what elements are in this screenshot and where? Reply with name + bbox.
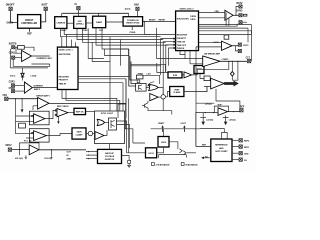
svg-text:CLK: CLK bbox=[99, 30, 104, 32]
mesh wire B bbox=[64, 28, 150, 34]
svg-text:GND: GND bbox=[67, 159, 72, 161]
wire ldo5 right bbox=[169, 142, 178, 149]
junction src2 bbox=[19, 149, 20, 150]
arrow chevron 2 bbox=[183, 151, 186, 155]
ramp block U4 bbox=[93, 16, 106, 28]
wire POR reset out bbox=[143, 21, 176, 23]
terminal VL pad bbox=[77, 6, 80, 9]
wire bus stub vout bbox=[183, 129, 185, 132]
wire vertical bundle a bbox=[88, 28, 104, 58]
terminal FB1 pad bbox=[5, 97, 8, 100]
mesh drop into GL1 c bbox=[71, 40, 73, 48]
junction gl2 shdn bbox=[156, 34, 157, 35]
svg-text:DRVL: DRVL bbox=[190, 19, 196, 21]
wire gm feedback bbox=[197, 61, 229, 73]
svg-text:REF2: REF2 bbox=[244, 141, 250, 143]
svg-text:COMP1: COMP1 bbox=[221, 59, 229, 61]
wire bst branch down bbox=[10, 49, 48, 68]
dot monitor in1 bbox=[88, 151, 89, 152]
wire down from out2 bbox=[123, 79, 126, 118]
ground glyph r1 bbox=[200, 116, 206, 118]
svg-text:TIME IN: TIME IN bbox=[59, 84, 67, 86]
wire ref pad3 bbox=[232, 152, 239, 154]
wire comp2 in bbox=[200, 74, 211, 87]
junction VL bbox=[78, 13, 79, 14]
wire GL1 out2 bbox=[78, 78, 126, 80]
wire monitor in2 bbox=[86, 154, 98, 156]
gate logic 2 block U6 bbox=[176, 11, 199, 51]
wire bus drop to ramp block bbox=[98, 13, 100, 16]
svg-text:REF1: REF1 bbox=[244, 147, 250, 149]
wire gl2 bottom drop a bbox=[180, 51, 185, 55]
arrowhead SS bbox=[201, 157, 204, 160]
wire fault to osc bbox=[67, 22, 74, 24]
buf amp U30 bbox=[218, 108, 228, 116]
wire gm out to comp pad bbox=[220, 60, 247, 62]
wire box to gate bbox=[146, 86, 149, 88]
svg-text:VOUT: VOUT bbox=[180, 123, 186, 125]
svg-text:UVLO: UVLO bbox=[10, 76, 16, 78]
bubble comp1 bbox=[32, 115, 34, 117]
svg-text:MONITOR: MONITOR bbox=[105, 159, 115, 161]
svg-text:LDO(5): LDO(5) bbox=[206, 119, 213, 121]
wire amp2 in1 bbox=[15, 84, 25, 86]
svg-text:LDO(5): LDO(5) bbox=[205, 103, 212, 105]
mesh drop into GL1 b bbox=[66, 34, 68, 47]
wire amp2 in2 bbox=[15, 90, 25, 92]
arrowhead VBATT bbox=[161, 125, 163, 127]
wire DH branch to BST bbox=[236, 6, 239, 15]
mesh wire C bbox=[77, 28, 163, 39]
mesh wire A bbox=[61, 28, 161, 36]
svg-text:REF: REF bbox=[27, 33, 32, 35]
svg-text:SHDN: SHDN bbox=[6, 23, 13, 25]
svg-text:CSN1: CSN1 bbox=[9, 53, 16, 55]
gain block U26 bbox=[72, 128, 86, 139]
wire gl1 bottom bundle a bbox=[62, 90, 117, 111]
wire bus drop to POR bbox=[128, 13, 130, 16]
svg-text:(DRWL): (DRWL) bbox=[76, 24, 84, 26]
sync group box bbox=[95, 111, 125, 144]
wire comp1 out bbox=[45, 110, 56, 118]
wire amp1 in2 bbox=[15, 57, 22, 59]
wire refok out bbox=[86, 110, 95, 112]
svg-text:LOAD: LOAD bbox=[31, 75, 37, 78]
wire fb branch down long bbox=[15, 99, 17, 134]
ldo amp U9 bbox=[222, 41, 233, 50]
svg-text:UVLO(2): UVLO(2) bbox=[15, 158, 23, 160]
fault logic block U2 bbox=[55, 17, 67, 29]
wire ldo5 to ldo3 bbox=[157, 147, 164, 153]
wire right edge long vertical bbox=[199, 25, 252, 62]
svg-text:ERROR AMP 1: ERROR AMP 1 bbox=[36, 95, 51, 98]
wire amp2 out bbox=[32, 87, 57, 89]
svg-text:REGISTER: REGISTER bbox=[177, 34, 188, 36]
svg-text:(LDO): (LDO) bbox=[125, 9, 131, 11]
error amp 1 U12 bbox=[38, 98, 49, 110]
comp2 amp U29 bbox=[211, 78, 224, 89]
mesh wire E bbox=[96, 28, 169, 45]
resistor R1 right of DH pad bbox=[243, 14, 247, 16]
wire ldo branch to pad2 bbox=[236, 46, 239, 51]
wire amp1 out bbox=[32, 55, 50, 57]
svg-text:RESET: RESET bbox=[149, 20, 156, 22]
wire comp2 out bbox=[46, 134, 72, 136]
wire box out right a bbox=[117, 121, 146, 153]
wire clamp out bbox=[184, 87, 207, 92]
junction buffer out bbox=[51, 149, 52, 150]
comparator box 2 bbox=[29, 129, 49, 142]
wire gl2 pin5 bbox=[169, 47, 176, 66]
wire ldo3 bottom run bbox=[159, 155, 187, 158]
junction DH bbox=[235, 15, 236, 16]
svg-text:BOOST: BOOST bbox=[25, 20, 34, 22]
svg-text:PRIORITY: PRIORITY bbox=[177, 38, 187, 40]
junction fb b bbox=[22, 98, 23, 99]
svg-text:BACKUP: BACKUP bbox=[105, 152, 114, 155]
svg-text:GATE LOGIC 1: GATE LOGIC 1 bbox=[59, 49, 74, 52]
wire pair upper bbox=[216, 89, 240, 109]
wire amp to node bbox=[158, 96, 161, 98]
svg-text:GND: GND bbox=[244, 154, 249, 156]
node circle N2 bbox=[88, 131, 92, 135]
svg-text:VDD: VDD bbox=[215, 11, 220, 13]
wire src2 to buffer bbox=[12, 149, 30, 151]
wire osc to ramp bbox=[86, 22, 93, 24]
buffer amp U17 bbox=[29, 145, 39, 155]
wire q1 down bbox=[148, 108, 172, 115]
LDO5 block U31 bbox=[158, 137, 169, 148]
ground uvlo2a symbol bbox=[25, 155, 27, 159]
ILIM block U20 bbox=[168, 72, 182, 78]
pin REF stub bbox=[29, 28, 31, 32]
wire fb branch to sink bbox=[21, 99, 23, 109]
svg-text:ON/OFF: ON/OFF bbox=[6, 4, 15, 6]
wire amp1 lower out bbox=[13, 59, 50, 66]
junction gm out b bbox=[237, 61, 238, 62]
boost controller U1 bbox=[18, 15, 41, 29]
wire crossing vertical at 156.6 bbox=[156, 28, 158, 59]
wire bus to ldo5 bbox=[163, 129, 165, 137]
svg-text:CLAMP: CLAMP bbox=[75, 134, 83, 137]
terminal BST pad bbox=[239, 5, 242, 8]
junction buf out bbox=[233, 111, 234, 112]
transistor Q1 bbox=[142, 101, 148, 108]
terminal SRC2 pad bbox=[8, 148, 11, 151]
svg-text:TIME OFF: TIME OFF bbox=[177, 45, 187, 47]
REF OK block U14 bbox=[74, 108, 86, 114]
wire ON to boost controller bbox=[11, 11, 18, 23]
wire monitor in3 bbox=[86, 158, 98, 160]
svg-text:VOLTAGE: VOLTAGE bbox=[105, 155, 115, 158]
svg-text:RAMP: RAMP bbox=[96, 21, 103, 24]
wire amp1 in1 bbox=[15, 47, 22, 53]
wire to diamond bbox=[232, 61, 238, 80]
terminal CC pad bbox=[247, 59, 250, 62]
mesh wire D bbox=[83, 28, 166, 42]
wire ldo out to pad bbox=[232, 45, 238, 47]
terminal BATT pad bbox=[44, 7, 47, 10]
svg-text:SYNC: SYNC bbox=[82, 30, 88, 32]
wire gl2 pin3 bbox=[163, 41, 175, 94]
gate logic 1 block U7 bbox=[57, 47, 78, 89]
wire gm in1 bbox=[157, 51, 203, 59]
svg-text:LDO5: LDO5 bbox=[243, 45, 249, 47]
wire buffer feedback bbox=[20, 143, 40, 150]
wire box out right c bbox=[125, 129, 146, 143]
wire center horizontals b bbox=[130, 65, 161, 67]
OV UV block U22 bbox=[194, 66, 204, 74]
svg-text:BATT: BATT bbox=[42, 3, 49, 6]
bubble comp2 bbox=[32, 132, 34, 134]
wire GL1 out1 bbox=[78, 76, 129, 78]
svg-text:CURRENT LIMIT: CURRENT LIMIT bbox=[36, 58, 52, 60]
ground pad symbol bbox=[127, 160, 131, 167]
wire reset branch down bbox=[144, 22, 146, 35]
svg-text:LDO3: LDO3 bbox=[148, 153, 154, 155]
wire gate to node bbox=[158, 88, 163, 95]
resistor R2 above ldo amp bbox=[224, 35, 229, 39]
comparator 2 U16 bbox=[34, 131, 47, 141]
svg-text:SRC2: SRC2 bbox=[5, 145, 12, 147]
junction gm fb bbox=[228, 61, 229, 62]
terminal GND pad bbox=[239, 152, 242, 155]
wire ldo amp in2 bbox=[196, 46, 222, 48]
wire bus drop to fault block bbox=[61, 13, 63, 16]
junction buf in b bbox=[213, 112, 214, 113]
wire hook up bbox=[200, 129, 224, 133]
arrow chevron 1 bbox=[180, 149, 183, 153]
mesh drop into GL1 d bbox=[75, 42, 77, 47]
terminal ON pad bbox=[9, 7, 12, 10]
wire fb1 to error amp bbox=[8, 98, 38, 100]
svg-text:TIME ON: TIME ON bbox=[177, 42, 186, 44]
driver op-amp U8 bbox=[225, 10, 233, 20]
ground glyph r2 bbox=[224, 122, 228, 126]
wire BATT to boost controller bbox=[41, 11, 46, 22]
dot monitor in3 bbox=[88, 158, 89, 159]
svg-text:LDO5: LDO5 bbox=[161, 142, 167, 144]
svg-text:SOFT-START: SOFT-START bbox=[215, 150, 228, 153]
wire monitor gnd out bbox=[122, 156, 130, 161]
wire node down bbox=[162, 99, 164, 111]
svg-text:PGND: PGND bbox=[130, 32, 136, 34]
dot monitor in2 bbox=[88, 155, 89, 156]
svg-text:CSP2: CSP2 bbox=[9, 82, 16, 84]
wire POR-ON pad down bbox=[136, 11, 138, 17]
terminal DH pad bbox=[239, 14, 242, 17]
wire ramp to POR bbox=[106, 21, 123, 23]
wire VL pad down bbox=[77, 10, 79, 17]
wire ref pad1 bbox=[232, 139, 239, 141]
wire buf gnd1 bbox=[202, 113, 204, 122]
wire chevron to ref block bbox=[187, 152, 196, 154]
wire driver in2 from GL2 bbox=[199, 17, 225, 19]
wire vertical extra bbox=[120, 40, 122, 66]
svg-text:LDO(3): LDO(3) bbox=[229, 119, 236, 121]
wire GL1 out3 bbox=[78, 82, 123, 84]
svg-text:REF CHECK: REF CHECK bbox=[57, 106, 69, 108]
svg-text:BSTFB: BSTFB bbox=[9, 43, 17, 45]
terminal CSP2 pad bbox=[11, 84, 14, 87]
flip flop box U24 bbox=[109, 118, 117, 130]
checkbox label 1 bbox=[151, 163, 170, 167]
wire error amp out bbox=[49, 103, 126, 128]
ilim comp amp U19 bbox=[150, 94, 158, 101]
svg-text:GM ERROR AMP: GM ERROR AMP bbox=[204, 53, 221, 56]
ground arrow refcheck bbox=[57, 121, 60, 124]
svg-text:AND: AND bbox=[219, 147, 224, 150]
svg-text:GAIN: GAIN bbox=[77, 130, 83, 133]
wire gate to ff bbox=[105, 121, 109, 123]
terminal SS pad bbox=[239, 158, 242, 161]
pwm comp box bbox=[136, 75, 143, 79]
wire src2 branch down bbox=[19, 150, 21, 156]
svg-text:GATE LOGIC 2: GATE LOGIC 2 bbox=[180, 8, 195, 11]
wire comp2 in bbox=[16, 134, 34, 138]
comparator 1 U15 bbox=[34, 114, 45, 124]
or gate G1 bbox=[149, 84, 159, 90]
wire R3 to amp feedback bbox=[24, 47, 34, 51]
wire buf out down bbox=[223, 115, 229, 121]
wire vertical bundle c bbox=[105, 49, 129, 56]
svg-text:UVLO(2): UVLO(2) bbox=[44, 158, 52, 160]
oscillator block U3 bbox=[74, 16, 86, 28]
vertical bundle center b bbox=[130, 56, 137, 80]
LDO3 block U32 bbox=[146, 148, 157, 158]
wire gain to node2 bbox=[86, 133, 88, 135]
wire buf feedback bbox=[214, 106, 228, 113]
svg-text:OSC: OSC bbox=[78, 21, 83, 23]
node circle N1 bbox=[161, 95, 165, 99]
wire bottom bus bbox=[151, 128, 200, 130]
terminal LDO5 pad bbox=[238, 43, 241, 46]
VREF clamp block U23 bbox=[170, 87, 184, 97]
wire gl2 pin2 bbox=[161, 38, 176, 75]
svg-text:2 IN ADVANCE: 2 IN ADVANCE bbox=[156, 163, 171, 166]
thick arrow out bbox=[224, 81, 239, 87]
wire SS out arrow bbox=[202, 157, 211, 159]
backup monitor block U27 bbox=[98, 149, 122, 163]
svg-text:POWER-ON: POWER-ON bbox=[127, 20, 139, 22]
sync amp U25 bbox=[95, 132, 104, 140]
top bus wire bbox=[62, 12, 129, 14]
terminal CSN1 pad bbox=[12, 56, 15, 59]
wire node to clamp bbox=[165, 92, 169, 97]
svg-text:CHARGE: CHARGE bbox=[56, 22, 65, 25]
tiny pad a bbox=[137, 80, 140, 83]
wire ldo amp in1 bbox=[199, 41, 222, 43]
vertical bundle center c bbox=[131, 62, 136, 84]
svg-text:REGISTER: REGISTER bbox=[59, 76, 70, 78]
wire into box top b bbox=[118, 79, 126, 118]
current amp 2 U11 bbox=[24, 82, 32, 93]
wire bus stub vbatt bbox=[162, 129, 164, 132]
resistor R4 box bbox=[19, 123, 26, 128]
wire refcheck ground stub bbox=[57, 117, 59, 122]
wire sync amp out bbox=[104, 130, 107, 136]
junction reset branch bbox=[144, 21, 145, 22]
current sink arrow bbox=[21, 109, 24, 113]
wire to ilim bbox=[143, 63, 168, 84]
checkbox label 2 bbox=[181, 163, 198, 167]
vertical bundle center a bbox=[129, 49, 136, 86]
svg-text:SHUTDOWN: SHUTDOWN bbox=[177, 19, 189, 21]
terminal CSN2 pad bbox=[11, 90, 14, 93]
resistor R3 above amp1 bbox=[18, 46, 25, 50]
wire ref hook bbox=[222, 133, 228, 140]
terminal CSP1 pad bbox=[12, 46, 15, 49]
wire gm in2 bbox=[190, 51, 203, 64]
svg-text:R1 = R2: R1 = R2 bbox=[24, 141, 32, 143]
svg-text:VREF: VREF bbox=[174, 89, 180, 91]
wire right of sync box bbox=[128, 98, 130, 152]
svg-text:DHV2: DHV2 bbox=[236, 11, 243, 13]
wire pair lower bbox=[196, 102, 214, 104]
mosfet Q4 bbox=[148, 82, 155, 86]
reference block U33 bbox=[211, 139, 232, 162]
wire LX pad right bbox=[242, 21, 247, 23]
ground arrow r1 bbox=[201, 122, 205, 126]
bubble in1 bbox=[55, 110, 57, 112]
arrow up VBATT bbox=[162, 127, 164, 132]
terminal REF pad bbox=[240, 109, 243, 112]
svg-text:VBATT: VBATT bbox=[158, 122, 165, 125]
comparator box 1 bbox=[29, 111, 49, 125]
svg-text:AMP 2: AMP 2 bbox=[34, 88, 41, 91]
bubble in2 bbox=[55, 114, 57, 116]
wire driver out to DH bbox=[233, 14, 239, 16]
terminal LX pad bbox=[239, 21, 242, 24]
svg-text:IN ADVANCE: IN ADVANCE bbox=[185, 163, 198, 166]
wire buffer out bbox=[39, 149, 86, 151]
terminal POR-ON pad bbox=[136, 7, 139, 10]
wire vertical right of GL1 bbox=[109, 37, 111, 118]
ref check amp U13 bbox=[57, 109, 68, 117]
svg-text:REFERENCE: REFERENCE bbox=[215, 144, 228, 146]
terminal LDO3 pad bbox=[238, 49, 241, 52]
diode D1 bbox=[21, 73, 24, 77]
wire shdn row into GL2 bbox=[145, 33, 176, 35]
wire diode drop bbox=[22, 68, 24, 81]
svg-text:DRVH: DRVH bbox=[190, 16, 196, 18]
mesh wire F bbox=[102, 28, 129, 49]
svg-text:SYNC LOGIC: SYNC LOGIC bbox=[101, 113, 114, 115]
POR block U5 bbox=[123, 17, 143, 26]
junction buf in bbox=[205, 112, 206, 113]
svg-text:SHUTDOWN: SHUTDOWN bbox=[59, 54, 71, 56]
svg-text:CONTROLLER: CONTROLLER bbox=[21, 23, 37, 25]
wire branch down right bbox=[51, 150, 53, 156]
wire ref pad2 bbox=[232, 146, 239, 148]
ilim out amp U21 bbox=[184, 72, 192, 78]
wire monitor in1 bbox=[86, 151, 98, 153]
arrow up VOUT bbox=[183, 127, 185, 132]
wire buf out to pad bbox=[228, 111, 240, 113]
svg-text:CLAMP: CLAMP bbox=[173, 91, 181, 94]
wire ref pad4 bbox=[232, 159, 239, 161]
wire gl1 bottom bundle b bbox=[66, 90, 120, 111]
wire feedback below driver bbox=[199, 13, 238, 27]
wire refcheck out bbox=[68, 112, 74, 114]
terminal REF2 pad bbox=[239, 139, 242, 142]
svg-text:PWM IN: PWM IN bbox=[177, 48, 185, 50]
wire corner right bbox=[110, 49, 129, 56]
svg-text:CURRENT: CURRENT bbox=[33, 86, 44, 88]
diamond current source bbox=[230, 72, 234, 77]
resistor R5 left of comp2 bbox=[204, 76, 210, 81]
wire buf in bbox=[196, 47, 218, 113]
